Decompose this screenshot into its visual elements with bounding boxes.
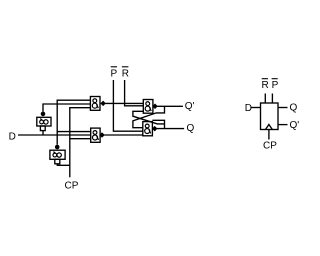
wire R-bar line to G5 input 2 (125, 80, 144, 106)
svg-text:CP: CP (263, 141, 277, 152)
wire cross-coupling A: G5 out to G6 input 1 (133, 106, 165, 127)
node R-bar label (symbol) (262, 79, 269, 91)
svg-text:R: R (122, 68, 129, 79)
wire Q out of symbol (278, 107, 288, 109)
wire V2 net: G2 output up to G3 input 1 (57, 100, 90, 145)
svg-text:CP: CP (65, 181, 79, 192)
wire R-bar into symbol (264, 94, 266, 104)
wire Q' out of symbol (278, 124, 288, 126)
wire G5 output to Q' (157, 105, 183, 107)
gate G6 (NAND latch bottom) (143, 122, 158, 136)
node P-bar label (111, 67, 118, 80)
wire cross-coupling B: G6 out to G5 input 3 (133, 111, 165, 128)
wire D into symbol (250, 107, 260, 109)
svg-text:R: R (262, 80, 269, 91)
wire G4 output to G6 input 3 (104, 134, 143, 136)
gate G3 (NAND, top middle) (90, 97, 105, 111)
svg-text:P: P (272, 80, 279, 91)
svg-text:D: D (9, 132, 16, 143)
wire CP branch to G4 input 3 (70, 138, 91, 140)
clock edge triangle (266, 125, 273, 130)
wire CP vertical line (70, 108, 91, 178)
gate G4 (NAND, bottom middle) (91, 128, 105, 142)
svg-text:Q': Q' (185, 101, 195, 112)
wire G2 input jog from CP line (57, 164, 70, 166)
wire V2 branch to G4 input 1 (57, 131, 90, 133)
wire G1 input stub (42, 131, 44, 135)
wire D input line (18, 134, 91, 136)
svg-text:D: D (245, 103, 252, 114)
inverter G2 (50, 145, 65, 164)
wire P-bar line to G6 input 2 (113, 80, 142, 131)
flip-flop symbol box U1 (261, 103, 279, 130)
node P-bar label (symbol) (272, 79, 279, 91)
node R-bar label (122, 67, 129, 80)
svg-text:P: P (111, 68, 118, 79)
wire P-bar into symbol (271, 94, 273, 104)
svg-text:Q: Q (290, 103, 298, 114)
wire G1 output to G3 input 2 (43, 104, 90, 112)
inverter G1 (37, 112, 51, 131)
gate G5 (NAND latch top) (143, 100, 157, 114)
svg-text:Q': Q' (290, 120, 300, 131)
wire G3 output to G5 input 1 (105, 102, 143, 104)
wire CP into symbol (268, 130, 270, 140)
wire G6 output to Q (157, 128, 184, 130)
svg-text:Q: Q (187, 123, 195, 134)
